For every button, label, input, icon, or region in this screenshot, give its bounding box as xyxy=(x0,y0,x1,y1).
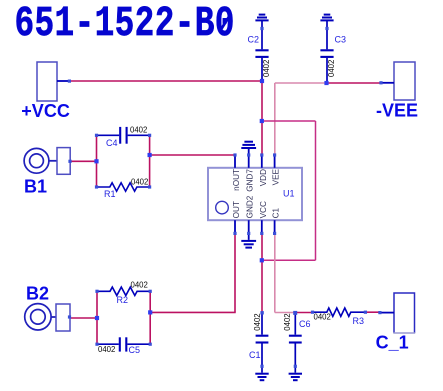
node C1 cap top xyxy=(260,311,263,314)
junction nodes (pin terminals) xyxy=(68,27,383,368)
svg-text:0402: 0402 xyxy=(98,345,115,354)
wire to C6 (pink) xyxy=(275,312,295,314)
node RC1 mid-left xyxy=(94,159,98,163)
U1 pin stub OUT xyxy=(234,220,236,232)
node RC2 mid-left xyxy=(95,316,99,320)
node C_1 pin xyxy=(378,311,381,314)
svg-text:0402: 0402 xyxy=(130,125,147,134)
wire VEE pin riser (pink) xyxy=(274,83,276,155)
svg-text:+VCC: +VCC xyxy=(21,101,70,121)
node C3 top xyxy=(325,27,328,30)
ground below C6 xyxy=(289,368,302,381)
connector C_1 xyxy=(393,293,415,333)
wire OUT pin down xyxy=(234,233,236,312)
node RC1 top-right xyxy=(148,134,151,137)
svg-text:0402: 0402 xyxy=(283,313,292,330)
node VCC xyxy=(260,232,263,235)
svg-text:C5: C5 xyxy=(129,345,141,355)
capacitor C5 xyxy=(97,337,150,351)
U1 pin stub VDD xyxy=(261,156,263,168)
svg-text:U1: U1 xyxy=(283,189,295,199)
wire +VCC to C2 node xyxy=(70,80,262,82)
U1 pin stub nOUT xyxy=(234,156,236,168)
svg-text:GND7: GND7 xyxy=(246,169,255,192)
node RC2 mid-right xyxy=(148,310,152,314)
slash of zero in title xyxy=(220,14,231,32)
wire C1 pin down (pink) xyxy=(274,233,276,312)
svg-text:C2: C2 xyxy=(248,35,260,45)
svg-text:nOUT: nOUT xyxy=(232,169,241,191)
node RC2 bottom-left xyxy=(95,343,98,346)
svg-text:0402: 0402 xyxy=(131,281,148,290)
IC U1 body xyxy=(208,168,302,220)
title 651-1522-B0 xyxy=(14,0,234,48)
ground above C2 xyxy=(255,15,268,21)
svg-text:651-1522-B0: 651-1522-B0 xyxy=(14,0,234,48)
U1 pin stub GND7 xyxy=(248,156,250,168)
resistor R3 xyxy=(313,308,366,316)
wire VEE net horizontal (pink) xyxy=(275,82,327,84)
svg-text:0402: 0402 xyxy=(314,313,331,322)
wire C3 node to -VEE xyxy=(327,82,382,84)
wire VCC loop bottom (rose) xyxy=(262,259,316,261)
svg-text:0402: 0402 xyxy=(327,60,336,77)
resistor R2 xyxy=(97,287,150,295)
resistor R1 xyxy=(97,183,150,191)
svg-text:0402: 0402 xyxy=(262,60,271,77)
svg-text:OUT: OUT xyxy=(232,201,241,218)
node R3 left xyxy=(311,311,314,314)
ground below C1 xyxy=(255,368,268,381)
capacitor C4 xyxy=(97,127,150,144)
capacitor C3 xyxy=(320,21,333,83)
capacitor C6 xyxy=(289,314,302,365)
node C1 ground xyxy=(260,365,263,368)
node RC1 mid-right xyxy=(148,153,152,157)
wire VCC pin down to C1 xyxy=(261,233,263,313)
U1 index circle xyxy=(216,201,229,214)
capacitor C2 xyxy=(255,21,268,81)
wire R3 to C_1 xyxy=(365,311,380,313)
svg-text:C4: C4 xyxy=(106,138,118,148)
node VCC loop tap xyxy=(260,258,264,262)
node +VCC pin xyxy=(68,80,71,83)
node VEE xyxy=(273,153,276,156)
wire VDD-VCC loop right vertical (rose) xyxy=(315,121,317,260)
node C6 ground xyxy=(294,365,297,368)
svg-text:0402: 0402 xyxy=(131,177,148,186)
svg-text:C_1: C_1 xyxy=(376,333,409,353)
node RC2 top-left xyxy=(95,290,98,293)
node B2 pin xyxy=(68,315,71,318)
svg-text:C3: C3 xyxy=(335,35,347,45)
svg-text:-VEE: -VEE xyxy=(376,100,418,120)
connector B2 xyxy=(25,304,56,330)
ground at GND7 xyxy=(241,142,256,154)
wire RC1 left vertical xyxy=(96,135,98,187)
svg-text:VDD: VDD xyxy=(259,169,268,186)
node GND2 xyxy=(247,232,250,235)
node RC1 bottom-right xyxy=(148,185,151,188)
node nOUT xyxy=(233,153,236,156)
U1 pin stub GND2 xyxy=(248,220,250,232)
wire RC1 right vertical xyxy=(149,135,151,187)
node R3 right xyxy=(364,311,367,314)
wire C6 to R3 xyxy=(295,312,312,314)
wire RC1 out to nOUT pin xyxy=(150,154,235,156)
node -VEE pin xyxy=(379,81,382,84)
svg-text:C1: C1 xyxy=(272,207,281,218)
node C1 pin xyxy=(273,232,276,235)
wire RC2 out horizontal xyxy=(150,311,236,313)
wire RC2 left vertical xyxy=(96,291,98,344)
connector B1 xyxy=(24,148,57,173)
connector -VEE xyxy=(394,62,415,100)
node B1 pin xyxy=(68,160,71,163)
svg-text:GND2: GND2 xyxy=(246,195,255,218)
node RC1 top-left xyxy=(95,134,98,137)
svg-text:VCC: VCC xyxy=(259,201,268,218)
node C3 bottom xyxy=(324,81,328,85)
node C2 bottom xyxy=(260,79,264,83)
U1 pin stub C1 xyxy=(274,220,276,232)
wire C2 node down to VDD pin xyxy=(261,81,263,155)
svg-text:0402: 0402 xyxy=(253,313,262,330)
node VDD xyxy=(260,153,263,156)
svg-text:R1: R1 xyxy=(104,189,116,199)
wire RC2 right vertical xyxy=(149,291,151,344)
node OUT xyxy=(233,232,236,235)
node VDD loop tap xyxy=(260,119,264,123)
wire VDD loop top (rose) xyxy=(262,120,316,122)
svg-text:B1: B1 xyxy=(24,176,47,196)
svg-text:VEE: VEE xyxy=(272,168,281,185)
U1 pin stub VEE xyxy=(274,156,276,168)
svg-text:R3: R3 xyxy=(353,316,365,326)
node RC2 top-right xyxy=(149,290,152,293)
svg-text:C1: C1 xyxy=(249,350,261,360)
node GND7 xyxy=(247,153,250,156)
capacitor C1 xyxy=(256,314,269,365)
node C6 cap top xyxy=(293,311,297,315)
connector +VCC xyxy=(37,62,57,101)
ground at GND2 xyxy=(241,235,256,248)
svg-text:R2: R2 xyxy=(117,295,129,305)
wire B1 to RC1 xyxy=(70,160,97,162)
svg-text:B2: B2 xyxy=(26,283,49,303)
U1 pin stub VCC xyxy=(261,220,263,232)
node RC1 bottom-left xyxy=(95,185,98,188)
node RC2 bottom-right xyxy=(149,343,152,346)
node C2 top xyxy=(260,27,263,30)
svg-text:C6: C6 xyxy=(299,319,311,329)
wire B2 to RC2 xyxy=(71,317,98,319)
ground above C3 xyxy=(320,15,333,21)
